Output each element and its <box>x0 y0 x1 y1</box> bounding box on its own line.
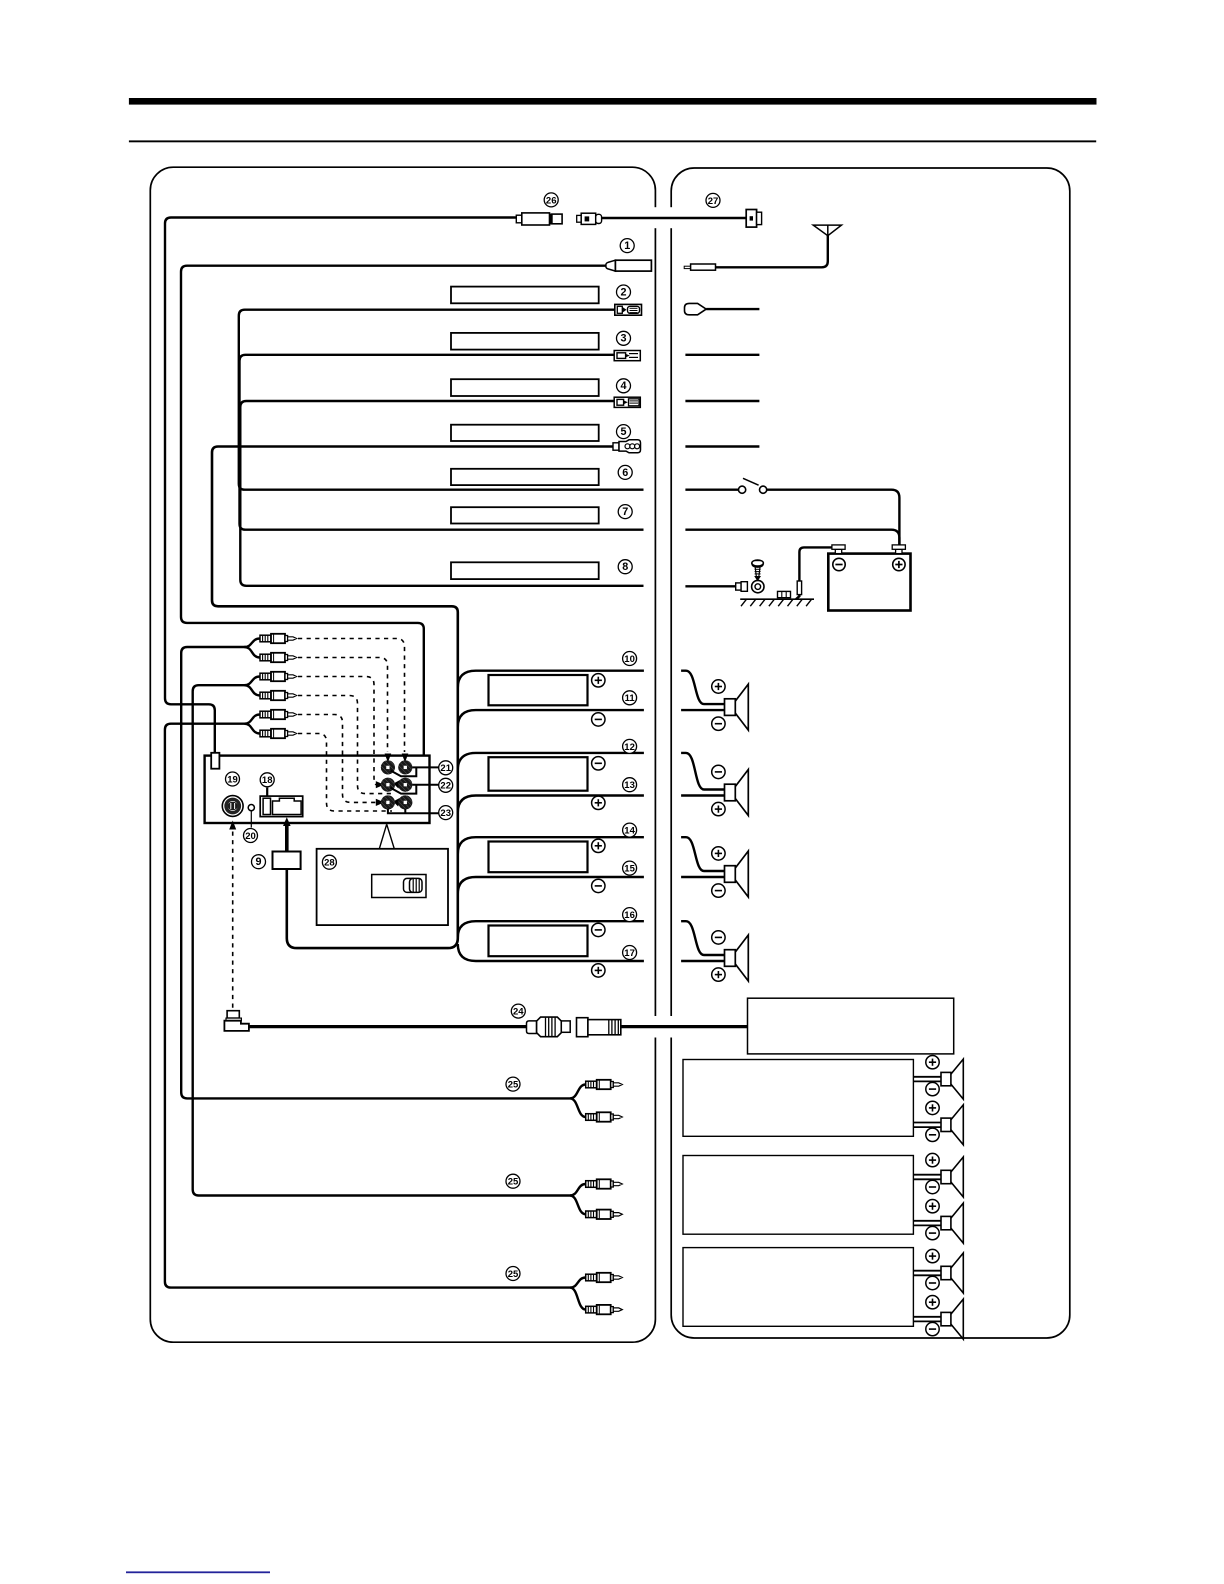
svg-text:16: 16 <box>624 910 635 921</box>
svg-text:10: 10 <box>624 654 635 665</box>
svg-text:4: 4 <box>620 380 626 392</box>
svg-text:25: 25 <box>508 1177 519 1188</box>
svg-text:5: 5 <box>620 426 626 438</box>
svg-text:17: 17 <box>624 948 635 959</box>
svg-text:14: 14 <box>624 826 635 837</box>
svg-text:11: 11 <box>625 693 636 704</box>
svg-text:15: 15 <box>624 864 635 875</box>
svg-text:27: 27 <box>708 196 719 207</box>
svg-text:13: 13 <box>624 780 635 791</box>
svg-text:26: 26 <box>546 195 557 206</box>
svg-text:1: 1 <box>624 240 630 252</box>
svg-text:22: 22 <box>440 781 451 792</box>
svg-text:7: 7 <box>622 506 628 518</box>
svg-text:24: 24 <box>513 1007 524 1018</box>
svg-text:20: 20 <box>245 831 256 842</box>
svg-text:8: 8 <box>622 561 628 573</box>
svg-text:18: 18 <box>262 775 273 786</box>
svg-text:2: 2 <box>620 286 626 298</box>
svg-text:25: 25 <box>508 1080 519 1091</box>
svg-text:28: 28 <box>324 858 335 869</box>
svg-text:23: 23 <box>440 808 451 819</box>
svg-text:9: 9 <box>255 856 261 868</box>
svg-text:25: 25 <box>508 1269 519 1280</box>
svg-text:19: 19 <box>227 774 238 785</box>
svg-text:6: 6 <box>622 467 628 479</box>
svg-text:12: 12 <box>624 742 635 753</box>
svg-text:21: 21 <box>440 763 451 774</box>
svg-text:3: 3 <box>620 333 626 345</box>
